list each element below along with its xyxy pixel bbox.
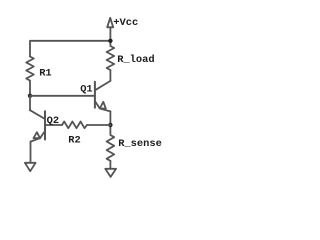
wire R_sense bottom [109, 161, 111, 169]
resistor R1 [26, 57, 34, 81]
wire R2 to junction [87, 124, 110, 126]
wire R_load bottom [109, 70, 111, 81]
svg-text:Q1: Q1 [80, 84, 92, 96]
wire Q1 emitter down [109, 111, 111, 135]
ground left [25, 163, 36, 171]
node R1/Q1-base/Q2-collector junction [28, 94, 32, 98]
transistor Q1 [95, 81, 111, 112]
power symbol +Vcc [107, 18, 113, 28]
svg-text:R_load: R_load [117, 54, 154, 66]
wire Q1 base [30, 95, 95, 97]
svg-text:R_sense: R_sense [118, 138, 162, 150]
wire R1 bottom [29, 81, 31, 96]
transistor Q2 [30, 110, 45, 141]
wire Q2 base to R2 [45, 124, 62, 126]
wire top rail [30, 41, 110, 57]
wire Vcc stub [109, 27, 111, 41]
resistor R_load [107, 46, 115, 70]
svg-text:R2: R2 [68, 135, 80, 147]
wire R_load top [109, 41, 111, 46]
svg-text:+Vcc: +Vcc [113, 17, 138, 29]
wire Q2 collector up [29, 96, 31, 110]
svg-text:R1: R1 [39, 67, 51, 79]
node Vcc/rail/R_load junction [108, 39, 112, 43]
node Q1-emitter/R2/R_sense junction [108, 123, 112, 127]
wire Q2 emitter down [30, 142, 32, 163]
resistor R2 [62, 122, 87, 129]
ground right [105, 169, 116, 177]
resistor R_sense [107, 135, 115, 161]
svg-text:Q2: Q2 [47, 115, 59, 127]
